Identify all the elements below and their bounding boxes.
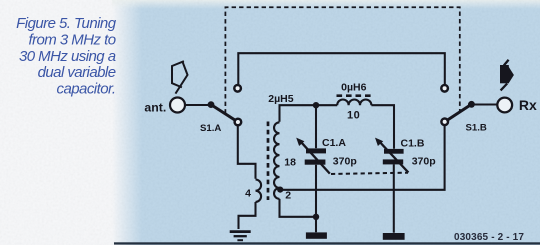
wire: secondary bottom to junction xyxy=(280,199,317,217)
svg-text:10: 10 xyxy=(347,110,360,122)
wire: C1.A top feed xyxy=(315,105,317,148)
wire: secondary top feed + top rail left segment xyxy=(280,105,338,122)
wire: tap rail from secondary tap to S1.B bottom contact xyxy=(280,126,444,190)
primary winding (4 turns) xyxy=(256,180,262,202)
wire: top rail right segment + C1.B top feed xyxy=(371,105,394,149)
svg-text:0µH6: 0µH6 xyxy=(341,82,366,94)
svg-text:dual variable: dual variable xyxy=(38,64,116,81)
ground (primary winding) xyxy=(230,232,251,241)
svg-text:Rx: Rx xyxy=(519,97,537,113)
svg-text:capacitor.: capacitor. xyxy=(57,81,116,98)
svg-text:2µH5: 2µH5 xyxy=(268,93,293,105)
svg-text:2: 2 xyxy=(285,190,291,202)
svg-text:ant.: ant. xyxy=(144,100,166,114)
dashed gang box S1 xyxy=(225,7,459,113)
svg-text:S1.A: S1.A xyxy=(200,123,221,134)
secondary winding (18 + 2 turns) xyxy=(274,122,279,199)
terminal ant xyxy=(170,98,185,113)
output arrow icon (filled) xyxy=(500,60,514,91)
junction: secondary bottom / C1.A ground line xyxy=(313,214,319,220)
inductor core (dashed) xyxy=(337,94,372,97)
svg-text:370p: 370p xyxy=(333,156,357,168)
dashed gang line C1 xyxy=(331,173,408,174)
capacitor C1.B 370p (variable) xyxy=(375,138,408,173)
wire: C1.B bottom plate down to ground bar (crosses tap rail) xyxy=(393,164,395,232)
wire: S1.A bottom contact down to transformer primary xyxy=(238,126,256,179)
svg-text:4: 4 xyxy=(245,187,251,199)
wire: primary bottom to ground xyxy=(239,202,256,229)
bottom page edge line xyxy=(114,242,540,244)
wire: C1.A bottom plate down to ground bar (crosses tap rail) xyxy=(315,165,317,232)
inductor 0uH6 (10 turns) xyxy=(337,96,372,106)
switch S1.A xyxy=(208,85,242,125)
chassis ground bar (C1.A) xyxy=(306,232,327,238)
capacitor C1.A 370p (variable) xyxy=(296,138,330,174)
svg-text:030365 - 2 - 17: 030365 - 2 - 17 xyxy=(454,232,524,243)
junction: top rail / C1.A xyxy=(313,102,319,108)
terminal Rx xyxy=(497,98,512,113)
wire: S1.A top contact to S1.B top contact xyxy=(238,53,444,84)
svg-text:Figure 5. Tuning: Figure 5. Tuning xyxy=(16,15,117,32)
switch S1.B xyxy=(441,85,475,125)
wire: S1.B pivot to Rx terminal xyxy=(468,103,497,105)
figure caption xyxy=(16,15,117,98)
svg-text:18: 18 xyxy=(284,156,296,168)
antenna input arrow icon (hollow) xyxy=(172,62,188,93)
svg-text:C1.B: C1.B xyxy=(401,137,425,149)
core (dashed) xyxy=(267,122,270,201)
svg-text:370p: 370p xyxy=(412,155,436,167)
svg-text:30 MHz using a: 30 MHz using a xyxy=(19,48,116,65)
svg-text:S1.B: S1.B xyxy=(466,123,487,134)
svg-text:C1.A: C1.A xyxy=(322,137,346,149)
svg-text:from 3 MHz to: from 3 MHz to xyxy=(28,31,115,48)
white caption column xyxy=(0,0,112,245)
junction: secondary tap dot xyxy=(277,187,283,193)
chassis ground bar (C1.B) xyxy=(383,233,405,240)
transformer (2uH5, windings 4 / 18 / 2 turns) xyxy=(256,122,280,202)
wire: ant terminal to S1.A pivot xyxy=(186,104,209,106)
